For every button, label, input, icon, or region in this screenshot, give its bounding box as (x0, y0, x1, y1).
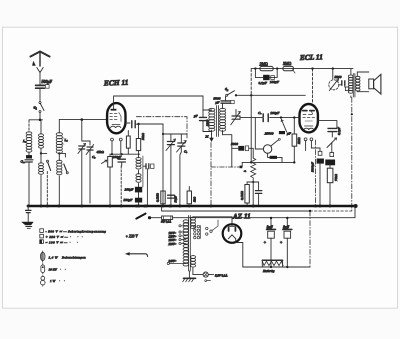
ECL11 pins (304, 138, 313, 151)
svg-text:5000pF: 5000pF (311, 162, 315, 172)
legend square 500V (40, 229, 44, 233)
capacitor C25 8uF (283, 217, 292, 268)
fuse F1 (151, 216, 173, 220)
ground symbol transformer (183, 271, 196, 282)
wire bus drop (162, 206, 312, 212)
ECH11 anode internal (111, 103, 117, 111)
legend square 100V (40, 240, 44, 244)
wire B+ top row (251, 67, 353, 69)
capacitor C8 100pF (135, 187, 142, 198)
svg-text:70kΩ: 70kΩ (334, 173, 338, 181)
capacitor C18 (279, 120, 287, 135)
IF transformer T1 secondary (220, 104, 226, 135)
capacitor C20 feedback (328, 128, 337, 137)
detector link dash-dot (211, 166, 242, 169)
tube AZ11 V1 (223, 224, 242, 243)
variable capacitor C10 tuning (166, 134, 176, 206)
legend lamp symbol (40, 251, 45, 262)
svg-text:ECH 11: ECH 11 (103, 78, 129, 88)
AVC line vertical (250, 69, 252, 162)
coil L6 oscillator (136, 156, 143, 187)
coil L5 (57, 160, 62, 206)
svg-text:2MΩ: 2MΩ (260, 61, 268, 66)
svg-text:M: M (205, 135, 209, 139)
capacitor C23 tone (339, 81, 349, 91)
node antenna junction (29, 119, 43, 122)
capacitor C5 100pF (118, 159, 125, 206)
svg-text:220V~: 220V~ (169, 242, 177, 246)
svg-text:pF: pF (215, 101, 221, 105)
svg-text:pF: pF (286, 132, 292, 136)
capacitor C1 500pF antenna (36, 85, 50, 102)
capacitor C14 5000 (232, 146, 253, 158)
ECL11 grid internals (303, 118, 315, 121)
wire mains row (173, 206, 355, 218)
dashed heater link (310, 210, 352, 212)
legend arrow (126, 252, 148, 256)
svg-text:+: + (264, 240, 267, 245)
capacitor C17 series (264, 114, 268, 121)
ECL11 anode internals (303, 111, 314, 115)
svg-text:100pF: 100pF (270, 111, 280, 115)
capacitor C15 (253, 182, 262, 206)
label 5000 pF (214, 97, 221, 105)
legend square 350V (40, 234, 44, 238)
ground symbol left (22, 206, 34, 228)
wires speaker (357, 72, 369, 92)
voltage selector plugs (194, 220, 218, 239)
IF transformer T1 capacitor (200, 110, 207, 132)
svg-text:100µF: 100µF (270, 80, 280, 84)
svg-text:Cₐ: Cₐ (258, 111, 261, 115)
resistor R4 zigzag (251, 158, 256, 183)
svg-text:C₆: C₆ (184, 150, 187, 154)
wire padder ground (146, 169, 148, 206)
output transformer T2 secondary (356, 76, 360, 91)
resistor R11 (161, 191, 165, 204)
svg-text:50µF: 50µF (173, 196, 177, 203)
wire AF return row (242, 161, 294, 167)
coil L3 (39, 153, 44, 206)
svg-text:5000: 5000 (231, 142, 238, 146)
tube ECL11 U2 (300, 104, 318, 132)
capacitor C17 bars (263, 114, 268, 122)
svg-text:100pF: 100pF (125, 188, 135, 192)
svg-text:pF: pF (193, 114, 198, 118)
IF transformer T1 primary (203, 108, 215, 134)
capacitor C19 cathode (317, 159, 324, 207)
capacitor C13 5000pF (221, 97, 234, 104)
svg-text:ECL 11: ECL 11 (299, 52, 323, 62)
AZ11 filament (228, 235, 243, 267)
variable capacitor C11 oscillator (177, 134, 187, 206)
trimmer capacitor C4 (86, 141, 94, 203)
svg-text:8µF: 8µF (283, 226, 290, 230)
ECH11 pins (111, 138, 123, 154)
resistor R12 (187, 187, 191, 204)
svg-text:500pF: 500pF (124, 198, 134, 202)
wire tuning bracket (162, 124, 187, 206)
ground bus main (28, 205, 356, 208)
svg-text:- 500 V ≃ — Schwingkreisspannu: - 500 V ≃ — Schwingkreisspannung (46, 229, 107, 233)
wire detector feed (223, 135, 232, 167)
wire T1 secondary arrow (210, 135, 214, 142)
svg-text:100pF: 100pF (113, 155, 123, 159)
wire trimmer feed (82, 120, 90, 141)
wire HT to AZ11 (193, 217, 232, 225)
ECH11 cathode internal (111, 125, 121, 128)
coil L2 (39, 120, 44, 155)
IF transformer T1 core (217, 106, 219, 137)
svg-text:+ 350 V ≃ — · · ·: + 350 V ≃ — · · · (46, 235, 83, 239)
svg-text:1 W · ·: 1 W · · (50, 279, 65, 283)
wire grid row (240, 116, 300, 118)
svg-text:5MΩ: 5MΩ (297, 137, 301, 144)
svg-text:25000: 25000 (265, 132, 274, 136)
wire filter bottom (243, 266, 310, 268)
bus junction dots (27, 204, 358, 208)
svg-text:8µF: 8µF (267, 226, 274, 230)
dash-dot speaker column (351, 98, 353, 211)
square symbol feedback (330, 153, 334, 157)
svg-text:Entbrüg: Entbrüg (262, 269, 275, 273)
gang link dash-dot (136, 117, 187, 138)
capacitor C6 coupling (125, 121, 138, 128)
potentiometer R1 with arrow (102, 154, 113, 206)
coil L4 with taps (56, 120, 64, 161)
potentiometer P1 bottom lead (268, 153, 282, 162)
dash-dot ECL column (314, 140, 316, 206)
tube ECH11 U1 (107, 103, 125, 133)
svg-text:~ 100 V ≃ — · ·: ~ 100 V ≃ — · · (46, 240, 79, 244)
svg-text:+ 220 V: + 220 V (126, 235, 139, 239)
gang link dash-dot vertical (210, 143, 212, 207)
switch a2 (226, 91, 238, 97)
power transformer T3 primary (183, 220, 188, 266)
svg-text:50kΩ: 50kΩ (141, 132, 145, 140)
trimmer C12 on T1 (231, 110, 241, 125)
variable arrow feedback (327, 138, 337, 153)
wire AVC row (236, 94, 305, 96)
wire cathode row (110, 153, 140, 155)
speaker LS (369, 74, 381, 94)
svg-text:C₁₀: C₁₀ (21, 160, 26, 164)
wire ECH11 plate to IF (202, 96, 204, 110)
svg-text:10 kW · ·: 10 kW · · (49, 267, 66, 271)
capacitor C26 (168, 195, 175, 198)
potentiometer P1 volume (263, 138, 280, 153)
resistor R2 (126, 131, 130, 155)
resistor R7 3M (283, 66, 295, 73)
svg-text:SW 0,1A: SW 0,1A (161, 220, 171, 224)
output transformer T2 primary (348, 69, 353, 98)
svg-text:AZ 11: AZ 11 (232, 212, 251, 220)
transformer taps (167, 225, 186, 265)
labels voltage taps (169, 231, 177, 263)
legend symbol 10kW (41, 264, 45, 275)
tone control C22 (329, 69, 339, 91)
resistor R8 grid leak (292, 118, 297, 164)
wire grid line to ECH11 (59, 118, 107, 121)
switch a1 (39, 102, 44, 120)
capacitor C21 (325, 160, 335, 169)
wire ECL anode feedback (318, 121, 337, 128)
ECL11 cathode internals (304, 126, 314, 130)
capacitor C9 500pF (135, 198, 142, 206)
capacitor C16 0,1uF 100uF (255, 69, 277, 81)
ECH11 grids internal (110, 113, 121, 122)
capacitor C24 8uF (267, 217, 276, 268)
dash-dot psu right (309, 211, 311, 267)
coil L1 antenna (26, 120, 32, 155)
svg-text:45kΩ: 45kΩ (97, 150, 105, 154)
svg-text:L₁: L₁ (22, 139, 26, 143)
capacitor C7 padding (144, 164, 155, 169)
AZ11 anodes (229, 224, 236, 231)
resistor R10 Entbrummung (262, 260, 283, 267)
cathode chain wire (311, 141, 320, 151)
mains switch S1 (136, 214, 151, 220)
svg-text:240V~: 240V~ (169, 259, 177, 263)
svg-text:+: + (280, 240, 283, 245)
scale lamp La1 (193, 268, 214, 282)
wire ECH11 anode to top (114, 96, 203, 103)
wire oscillator top (137, 123, 163, 125)
trimmer capacitor C3 (78, 144, 86, 207)
svg-text:5kΩ: 5kΩ (192, 196, 196, 202)
power transformer T3 secondary heater (191, 256, 196, 268)
switch a3 band (41, 153, 51, 206)
power transformer T3 core (189, 216, 191, 272)
square symbol cathode (318, 151, 322, 155)
resistor R9 (327, 168, 333, 206)
svg-text:500pF: 500pF (42, 79, 53, 84)
wire ECL11 screen dashed (312, 69, 314, 104)
resistor R3 50k (136, 124, 140, 158)
svg-text:5000: 5000 (335, 75, 342, 79)
switch a4 (59, 153, 68, 173)
resistor R6 2M (260, 66, 273, 70)
legend symbol 1W (41, 276, 46, 287)
output transformer T2 core (353, 74, 355, 98)
wire volume feed (255, 118, 263, 149)
power transformer T3 secondary HT (191, 217, 196, 229)
resistor R5 (245, 182, 253, 206)
capacitor C2 under L1 (25, 155, 33, 206)
svg-text:b: b (243, 170, 247, 172)
svg-text:3MΩ: 3MΩ (283, 61, 291, 66)
antenna (31, 52, 50, 85)
